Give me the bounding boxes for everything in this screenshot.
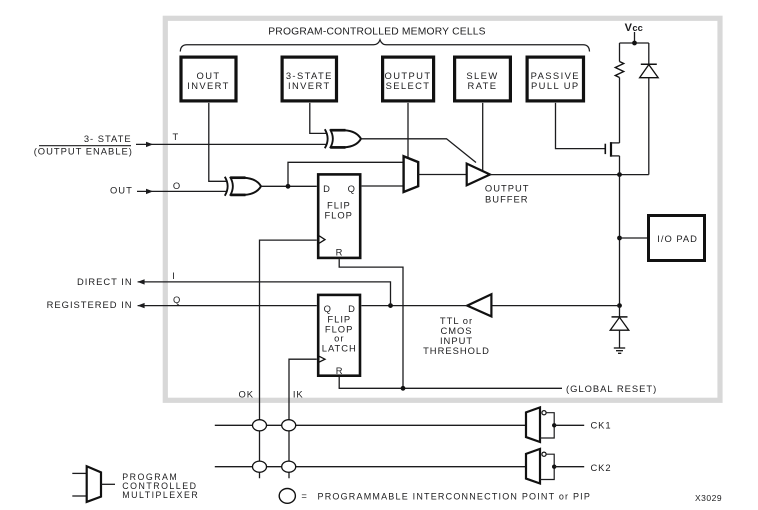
svg-text:DIRECT IN: DIRECT IN xyxy=(77,276,133,287)
svg-text:PULL UP: PULL UP xyxy=(531,80,580,91)
svg-text:PROGRAMMABLE INTERCONNECTION P: PROGRAMMABLE INTERCONNECTION POINT or PI… xyxy=(318,491,592,501)
svg-text:FLOP: FLOP xyxy=(324,210,353,221)
legend: PIP symbol xyxy=(279,489,591,504)
svg-text:3- STATE: 3- STATE xyxy=(84,133,132,144)
wire: pad to input buffer xyxy=(491,305,619,307)
svg-text:V: V xyxy=(625,22,633,34)
wire: input buffer to FF2 D xyxy=(361,305,467,307)
svg-text:CK1: CK1 xyxy=(591,420,612,431)
wire: mux M1 output to output buffer xyxy=(418,174,467,176)
svg-text:I: I xyxy=(172,270,175,281)
memory cell box: OUT INVERT xyxy=(181,57,236,101)
svg-text:X3029: X3029 xyxy=(695,493,722,503)
svg-text:cc: cc xyxy=(632,22,642,33)
ground xyxy=(614,348,625,353)
clock mux CK2 xyxy=(526,449,611,484)
wire: XOR U2 output to FF1 D xyxy=(261,185,317,187)
wire: IK clock net xyxy=(289,359,317,478)
flip-flop FF2 (input latch) xyxy=(317,295,360,376)
svg-text:RATE: RATE xyxy=(468,80,498,91)
svg-text:OUT: OUT xyxy=(110,184,133,195)
arrowhead DIRECT IN xyxy=(137,279,144,284)
power Vcc xyxy=(620,22,649,45)
svg-text:MULTIPLEXER: MULTIPLEXER xyxy=(122,490,199,500)
xor gate U1 (3-state path) xyxy=(325,129,361,148)
memory cell box: SLEW RATE xyxy=(455,57,511,101)
wire: FF1 Q output to mux M1 xyxy=(362,185,404,187)
svg-text:I/O PAD: I/O PAD xyxy=(657,233,698,244)
svg-text:SELECT: SELECT xyxy=(386,80,431,91)
wire: T input line with arrowhead xyxy=(136,142,327,147)
svg-text:(GLOBAL RESET): (GLOBAL RESET) xyxy=(566,383,657,394)
wire: global reset net xyxy=(339,387,562,389)
junction node at pull-up transistor source xyxy=(617,172,622,177)
wire: OUTPUT SELECT memory cell to mux M1 xyxy=(407,103,409,159)
flip-flop FF1 xyxy=(317,174,360,258)
mux M1 (output select) xyxy=(404,156,419,192)
memory cell box: OUTPUT SELECT xyxy=(383,57,434,101)
transistor Q1 (passive pull-up MOSFET) xyxy=(556,103,620,175)
clock mux CK1 xyxy=(526,407,611,442)
svg-text:PROGRAM-CONTROLLED MEMORY CELL: PROGRAM-CONTROLLED MEMORY CELLS xyxy=(268,27,486,38)
xor gate U2 (out path) xyxy=(225,177,261,196)
wire: clock row 2 xyxy=(215,466,526,468)
label OUTPUT BUFFER xyxy=(485,182,530,204)
wire: XOR U1 output to output buffer enable (diagonal) xyxy=(361,139,476,163)
junction node at input tap xyxy=(617,303,622,308)
output buffer U3 xyxy=(467,164,490,186)
wire: pad net vertical xyxy=(619,175,621,306)
wire: to I/O pad xyxy=(620,237,649,239)
svg-text:OK: OK xyxy=(239,388,254,399)
wire: FF1 R to global reset xyxy=(339,259,403,388)
brace over memory cell boxes xyxy=(180,40,589,52)
wire: REGISTERED IN from FF2 Q xyxy=(138,305,317,307)
svg-text:LATCH: LATCH xyxy=(322,343,357,354)
svg-text:IK: IK xyxy=(293,388,304,399)
svg-text:Q: Q xyxy=(348,183,356,194)
PIP circles on clock rows xyxy=(253,420,296,473)
label 3-STATE (OUTPUT ENABLE) xyxy=(34,133,133,156)
svg-text:Q: Q xyxy=(173,294,180,305)
svg-text:INVERT: INVERT xyxy=(187,80,230,91)
svg-text:BUFFER: BUFFER xyxy=(485,193,529,204)
input buffer U4 (TTL/CMOS threshold) xyxy=(467,294,491,316)
svg-text:THRESHOLD: THRESHOLD xyxy=(423,345,490,356)
wire: FF2 R to global reset xyxy=(338,377,340,388)
svg-text:R: R xyxy=(336,246,344,257)
junction node on global reset xyxy=(401,386,406,391)
wire: direct bypass to mux M1 input xyxy=(288,162,404,186)
arrowhead REGISTERED IN xyxy=(137,303,144,308)
svg-text:O: O xyxy=(173,180,180,191)
svg-text:OUTPUT: OUTPUT xyxy=(485,182,530,193)
svg-text:D: D xyxy=(323,183,331,194)
svg-text:(OUTPUT ENABLE): (OUTPUT ENABLE) xyxy=(34,146,133,157)
wire: output buffer to pad net xyxy=(490,174,649,176)
wire: SLEW RATE memory cell to output buffer xyxy=(482,103,484,171)
wire: clock row 1 xyxy=(215,424,526,426)
junction node at XOR U2 output xyxy=(286,184,291,189)
I/O PAD box xyxy=(649,216,705,261)
memory cell box: 3-STATE INVERT xyxy=(282,57,336,101)
legend: program controlled multiplexer symbol xyxy=(72,466,199,502)
wire: OUT INVERT memory cell to XOR U2 xyxy=(209,103,227,181)
diode D2 (clamp to ground) xyxy=(610,306,629,348)
diode D1 (clamp to Vcc) xyxy=(640,43,659,175)
junction node on direct-in tee xyxy=(388,303,393,308)
IOB boundary (gray border) xyxy=(165,18,720,400)
memory cell box: PASSIVE PULL UP xyxy=(527,57,583,101)
svg-text:CK2: CK2 xyxy=(591,462,612,473)
wire: DIRECT IN tee xyxy=(138,282,391,306)
svg-text:REGISTERED IN: REGISTERED IN xyxy=(47,299,133,310)
junction node at I/O pad tap xyxy=(617,236,622,241)
wire: 3-STATE INVERT memory cell to XOR U1 xyxy=(310,103,327,133)
resistor R1 (passive pull-up) xyxy=(615,43,623,143)
svg-text:R: R xyxy=(336,365,344,376)
wire: OK clock net xyxy=(260,240,317,478)
label TTL or CMOS INPUT THRESHOLD xyxy=(423,315,490,356)
wire: O input line with arrowhead xyxy=(137,189,227,194)
svg-text:INVERT: INVERT xyxy=(288,80,331,91)
svg-text:=: = xyxy=(301,490,307,501)
svg-text:T: T xyxy=(173,131,179,142)
